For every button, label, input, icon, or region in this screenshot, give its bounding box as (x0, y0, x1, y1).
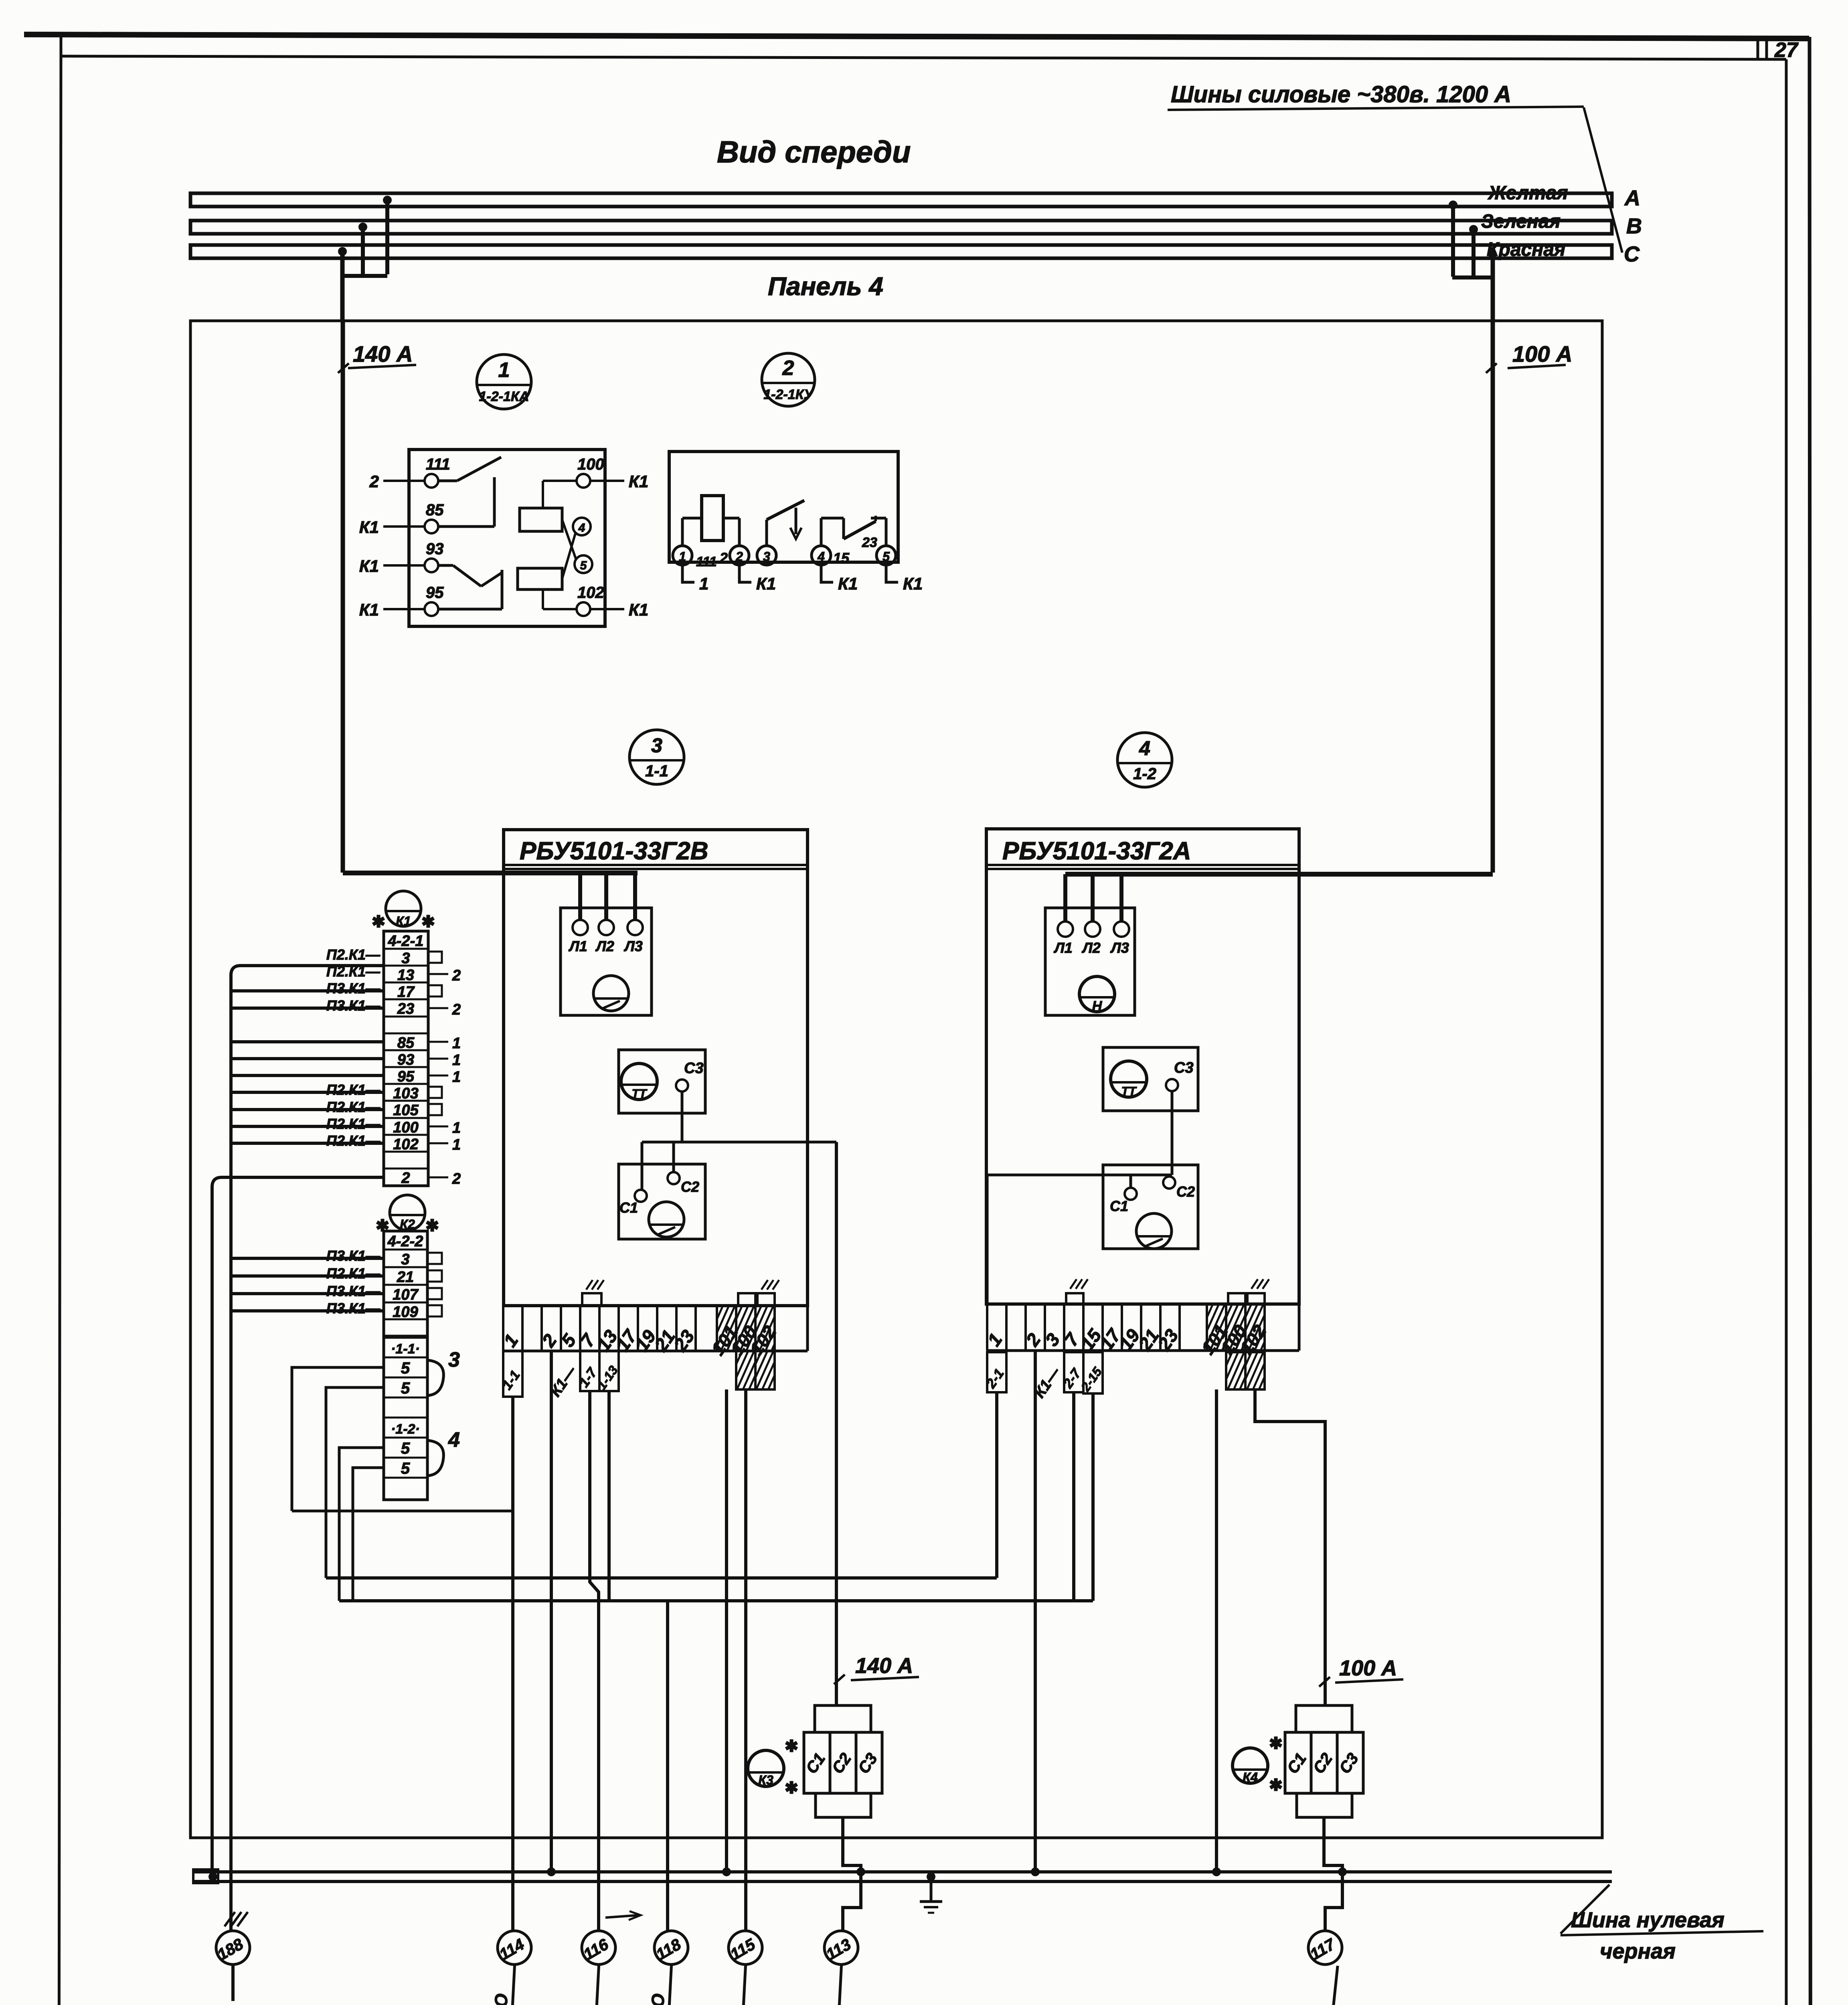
svg-text:21: 21 (397, 1269, 414, 1286)
svg-text:15: 15 (833, 550, 850, 566)
svg-text:93: 93 (397, 1051, 414, 1068)
svg-text:100: 100 (577, 456, 604, 473)
svg-text:Н: Н (1092, 998, 1103, 1014)
svg-text:2: 2 (452, 1001, 461, 1018)
svg-text:П3.К1—: П3.К1— (326, 997, 381, 1014)
svg-text:✱: ✱ (1269, 1735, 1283, 1752)
svg-text:К1: К1 (629, 472, 648, 491)
svg-text:Красная: Красная (1487, 239, 1565, 260)
svg-text:·1-1·: ·1-1· (391, 1341, 420, 1357)
svg-text:1: 1 (452, 1052, 461, 1069)
svg-text:2: 2 (369, 472, 379, 491)
svg-text:107: 107 (393, 1286, 419, 1303)
svg-text:27: 27 (1774, 38, 1799, 62)
svg-text:С2: С2 (681, 1179, 699, 1195)
svg-text:П3.К1—: П3.К1— (326, 1300, 381, 1316)
svg-text:1-2-1КА: 1-2-1КА (479, 389, 529, 404)
svg-text:С3: С3 (1174, 1059, 1194, 1076)
svg-text:100 А: 100 А (1339, 1656, 1397, 1680)
svg-text:К1: К1 (359, 518, 379, 537)
svg-text:1: 1 (452, 1120, 461, 1136)
svg-text:Панель 4: Панель 4 (768, 272, 883, 301)
svg-text:5: 5 (401, 1379, 410, 1397)
svg-text:К1: К1 (359, 557, 379, 575)
svg-text:95: 95 (397, 1068, 415, 1085)
svg-text:17: 17 (397, 984, 415, 1000)
svg-text:П2.К1—: П2.К1— (326, 1265, 381, 1282)
svg-text:К2: К2 (400, 1217, 415, 1231)
svg-text:Вид спереди: Вид спереди (717, 135, 911, 169)
svg-text:П3.К1—: П3.К1— (326, 980, 381, 996)
svg-text:93: 93 (426, 540, 444, 558)
svg-text:К1: К1 (359, 600, 379, 619)
svg-text:1: 1 (498, 358, 510, 382)
svg-text:ТТ: ТТ (632, 1087, 648, 1100)
svg-text:140 А: 140 А (855, 1654, 913, 1678)
svg-text:✱: ✱ (376, 1217, 389, 1235)
svg-text:23: 23 (397, 1000, 414, 1017)
svg-text:С1: С1 (1110, 1198, 1128, 1214)
svg-text:3: 3 (401, 1251, 409, 1268)
svg-text:5: 5 (401, 1359, 410, 1377)
svg-text:4: 4 (1139, 737, 1150, 759)
svg-text:К1: К1 (396, 914, 411, 928)
svg-text:К3: К3 (758, 1773, 773, 1787)
svg-text:109: 109 (393, 1304, 418, 1320)
svg-text:✱: ✱ (425, 1217, 439, 1235)
svg-text:1: 1 (679, 549, 686, 564)
svg-text:черная: черная (1600, 1939, 1676, 1963)
svg-text:5: 5 (401, 1460, 410, 1477)
svg-text:23: 23 (862, 535, 877, 550)
svg-text:С3: С3 (684, 1060, 704, 1077)
svg-text:К1: К1 (756, 574, 776, 593)
svg-text:✱: ✱ (372, 913, 385, 931)
svg-text:К4: К4 (1243, 1770, 1258, 1784)
svg-text:К1: К1 (903, 574, 923, 593)
svg-text:Шины силовые ~380в. 1200 А: Шины силовые ~380в. 1200 А (1171, 81, 1511, 107)
svg-text:2: 2 (452, 967, 461, 984)
svg-text:2: 2 (735, 549, 743, 564)
svg-text:2: 2 (401, 1170, 410, 1187)
svg-text:2: 2 (782, 356, 794, 380)
svg-text:5: 5 (580, 559, 587, 572)
svg-text:1-1: 1-1 (645, 762, 668, 780)
svg-text:Л1: Л1 (568, 938, 587, 954)
svg-text:111: 111 (696, 554, 717, 569)
svg-text:С2: С2 (1176, 1183, 1195, 1200)
svg-text:4: 4 (817, 549, 825, 564)
svg-text:105: 105 (393, 1102, 419, 1119)
svg-text:102: 102 (577, 584, 604, 601)
svg-text:ТТ: ТТ (1121, 1085, 1137, 1098)
svg-text:1-2-1КУ: 1-2-1КУ (763, 387, 814, 402)
svg-text:Л2: Л2 (595, 938, 614, 954)
svg-text:2: 2 (452, 1171, 461, 1187)
svg-text:1: 1 (699, 574, 708, 593)
svg-text:Л3: Л3 (623, 938, 643, 954)
svg-text:4: 4 (448, 1428, 460, 1452)
svg-text:4-2-2: 4-2-2 (387, 1233, 423, 1250)
svg-text:П2.К1—: П2.К1— (326, 1081, 381, 1098)
svg-text:Зеленая: Зеленая (1481, 211, 1561, 232)
svg-text:Шина нулевая: Шина нулевая (1571, 1908, 1725, 1932)
svg-text:П3.К1—: П3.К1— (326, 1283, 381, 1299)
svg-text:Л2: Л2 (1081, 940, 1101, 956)
svg-text:85: 85 (397, 1035, 415, 1051)
svg-text:140 А: 140 А (353, 341, 413, 367)
svg-text:✱: ✱ (785, 1738, 798, 1755)
svg-text:4-2-1: 4-2-1 (388, 933, 424, 950)
svg-text:РБУ5101-33Г2В: РБУ5101-33Г2В (520, 837, 708, 865)
svg-text:П2.К1—: П2.К1— (326, 946, 381, 963)
svg-text:П3.К1—: П3.К1— (326, 1248, 381, 1264)
svg-text:100 А: 100 А (1512, 341, 1572, 367)
svg-text:5: 5 (883, 549, 890, 564)
svg-text:3: 3 (763, 549, 770, 564)
svg-text:2: 2 (719, 550, 728, 566)
svg-text:102: 102 (393, 1136, 418, 1153)
svg-text:1: 1 (452, 1069, 461, 1086)
svg-text:С1: С1 (619, 1199, 638, 1216)
svg-text:85: 85 (426, 501, 444, 519)
svg-text:103: 103 (393, 1085, 418, 1102)
svg-text:5: 5 (401, 1440, 410, 1457)
svg-text:3: 3 (401, 950, 410, 967)
svg-text:Желтая: Желтая (1487, 182, 1568, 204)
svg-text:А: А (1624, 186, 1640, 210)
svg-text:Л3: Л3 (1110, 940, 1129, 956)
svg-text:1: 1 (452, 1136, 461, 1153)
svg-text:1: 1 (452, 1035, 461, 1052)
svg-text:К1: К1 (629, 600, 648, 619)
svg-text:К1: К1 (838, 574, 858, 593)
svg-text:П2.К1—: П2.К1— (326, 1099, 381, 1115)
svg-text:✱: ✱ (785, 1779, 798, 1797)
svg-text:13: 13 (397, 967, 414, 984)
svg-text:3: 3 (448, 1348, 460, 1371)
svg-text:✱: ✱ (421, 913, 435, 931)
svg-text:П2.К1—: П2.К1— (326, 1116, 381, 1132)
svg-text:3: 3 (651, 734, 662, 757)
svg-text:4: 4 (578, 521, 585, 535)
svg-text:111: 111 (426, 456, 450, 473)
svg-text:✱: ✱ (1269, 1776, 1283, 1794)
svg-text:Л1: Л1 (1053, 940, 1073, 956)
svg-text:1-2: 1-2 (1133, 765, 1156, 783)
svg-text:·1-2·: ·1-2· (391, 1422, 420, 1437)
svg-text:С: С (1624, 242, 1640, 266)
svg-text:95: 95 (426, 584, 444, 601)
svg-text:РБУ5101-33Г2А: РБУ5101-33Г2А (1002, 837, 1191, 865)
svg-text:В: В (1626, 214, 1642, 238)
svg-text:П2.К1—: П2.К1— (326, 1132, 381, 1149)
svg-text:100: 100 (393, 1119, 418, 1136)
